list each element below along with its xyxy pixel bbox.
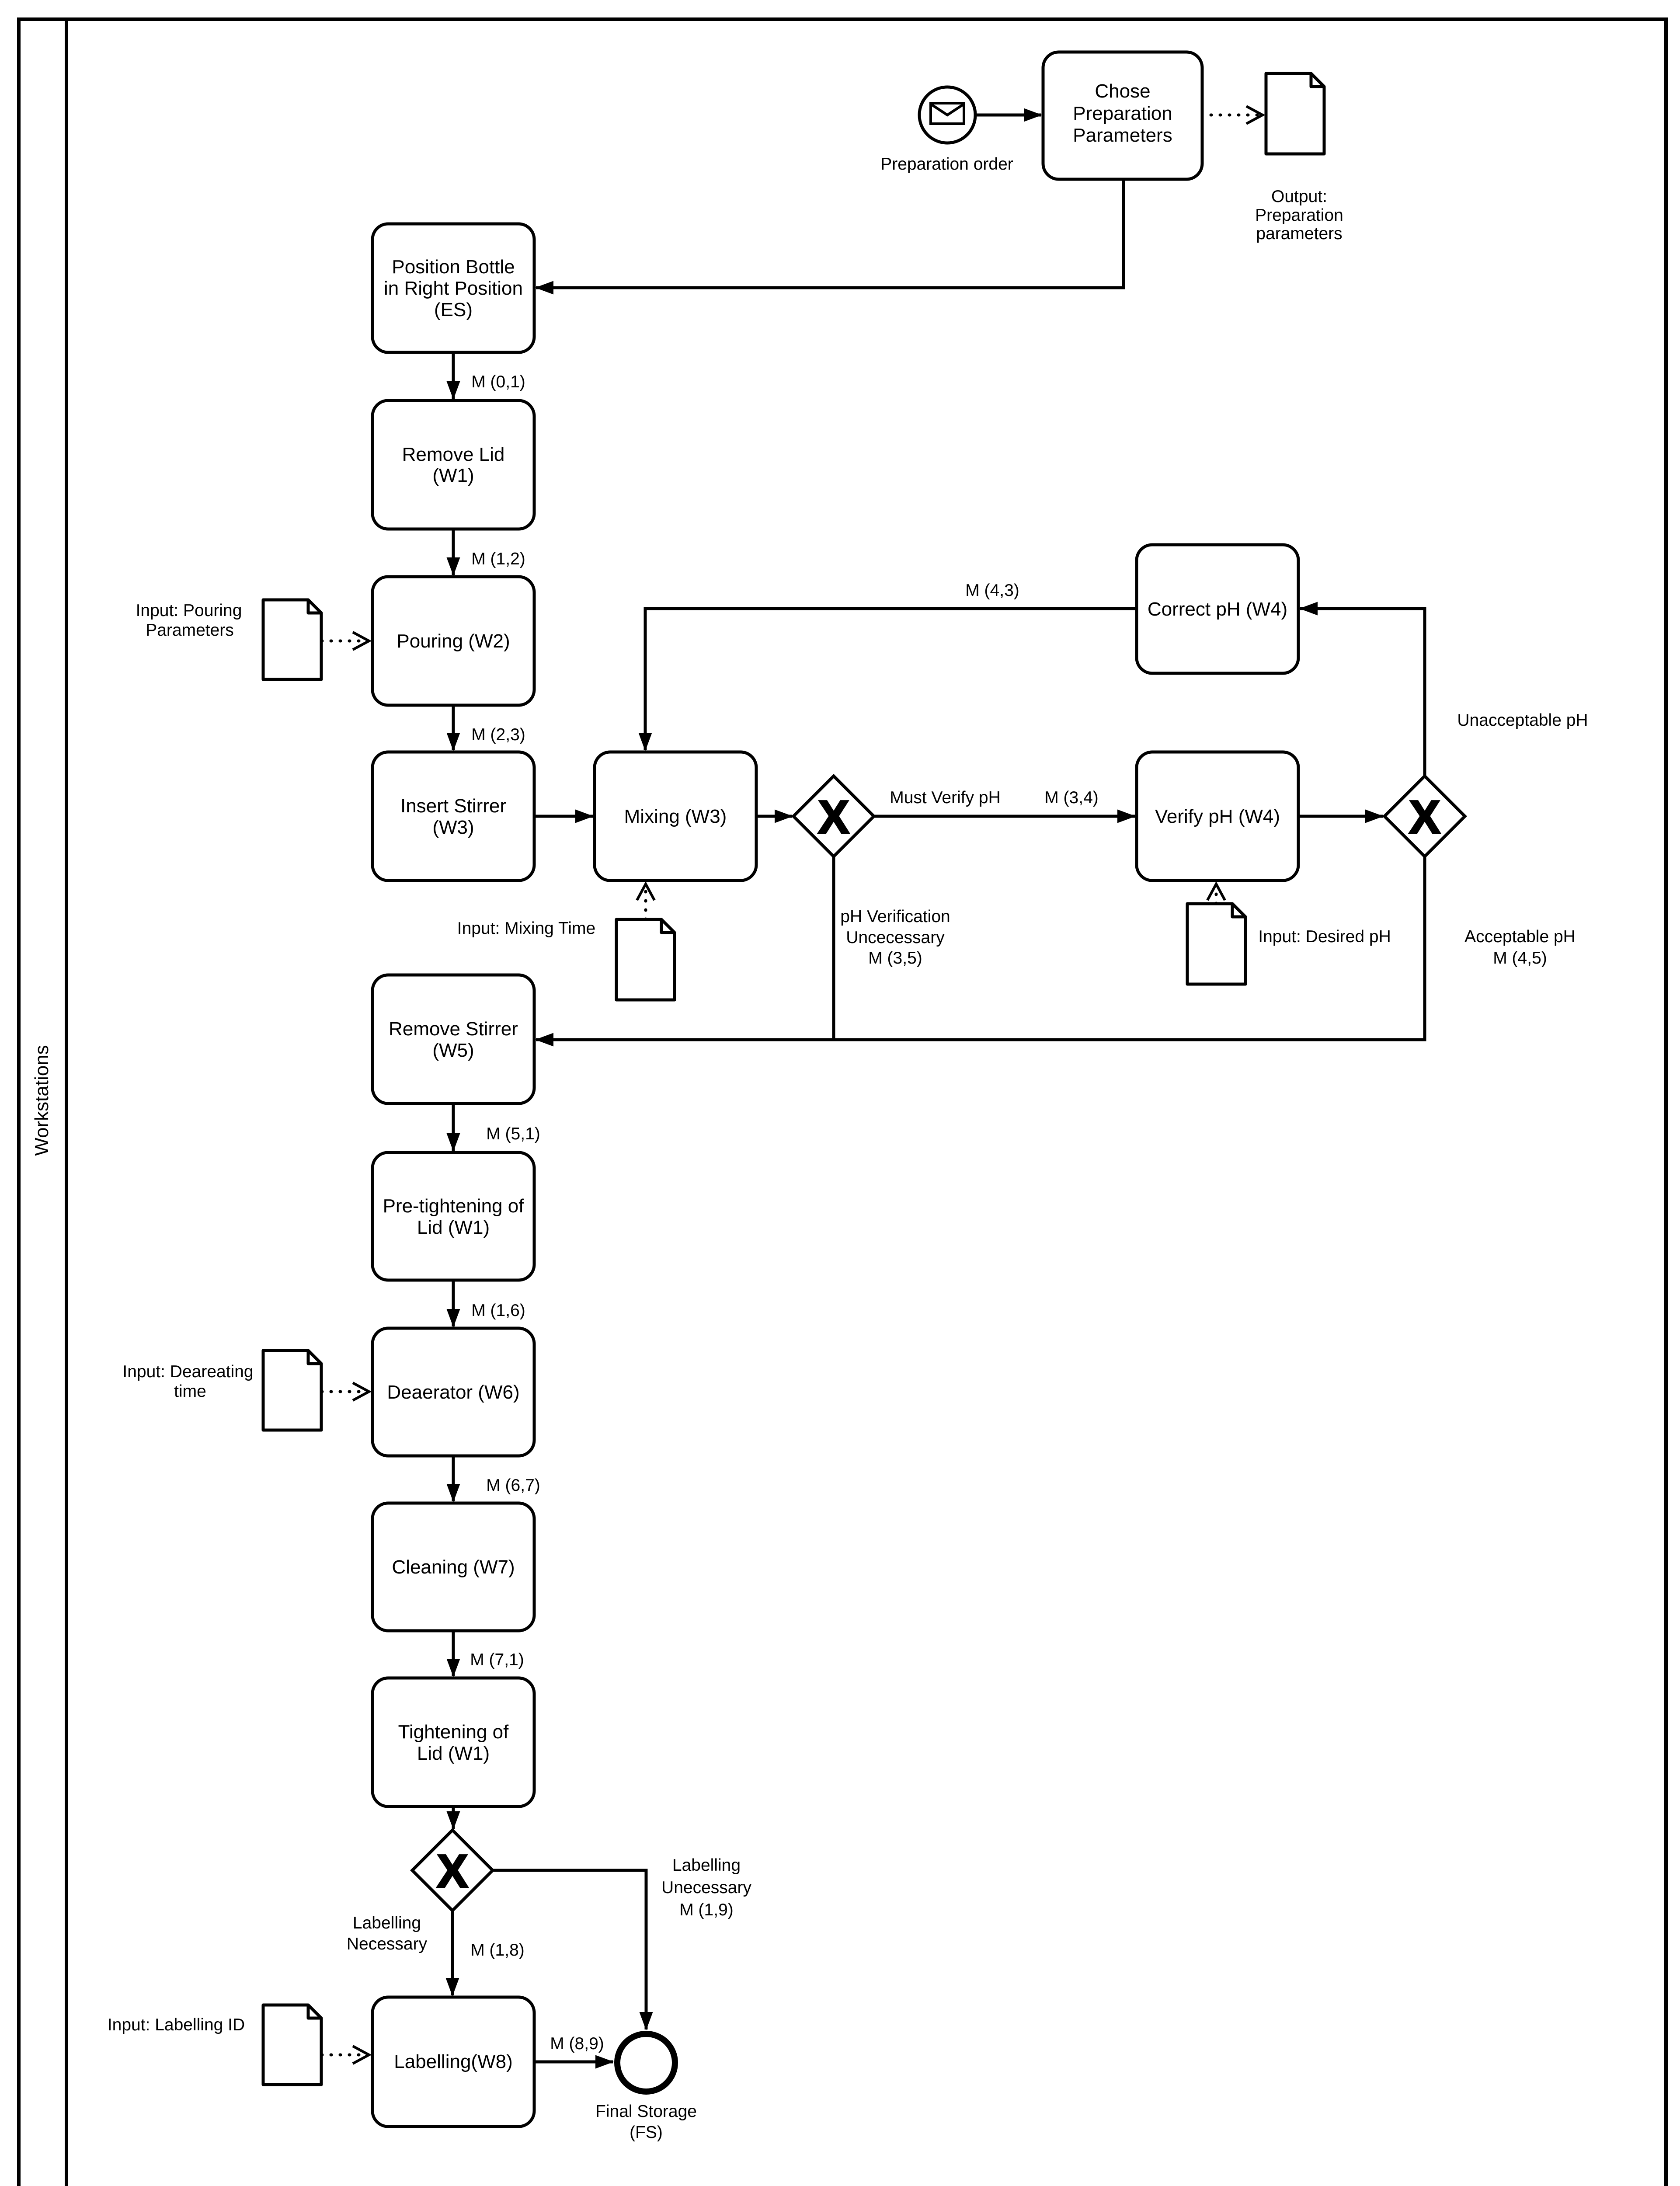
svg-text:Unacceptable pH: Unacceptable pH [1457,711,1588,730]
svg-text:Uncecessary: Uncecessary [846,928,945,947]
svg-text:Necessary: Necessary [347,1935,428,1953]
svg-text:Input: Pouring: Input: Pouring [136,601,242,620]
svg-text:M (1,8): M (1,8) [470,1941,525,1960]
svg-text:M (8,9): M (8,9) [550,2034,604,2053]
svg-text:parameters: parameters [1256,224,1342,243]
svg-text:M (6,7): M (6,7) [486,1476,540,1495]
svg-text:Chose: Chose [1095,80,1150,102]
svg-text:Parameters: Parameters [1073,125,1172,146]
svg-text:Preparation: Preparation [1073,103,1172,124]
svg-text:X: X [818,791,849,843]
svg-text:Preparation: Preparation [1255,206,1343,225]
svg-text:time: time [174,1382,206,1401]
svg-text:in Right Position: in Right Position [384,278,523,299]
svg-text:Position Bottle: Position Bottle [392,256,515,278]
svg-text:Input: Deareating: Input: Deareating [122,1362,253,1381]
svg-text:Acceptable pH: Acceptable pH [1464,927,1576,946]
svg-text:Input: Desired pH: Input: Desired pH [1258,927,1391,946]
svg-text:Pre-tightening of: Pre-tightening of [383,1195,525,1217]
svg-text:Unecessary: Unecessary [661,1878,751,1897]
svg-text:M (4,3): M (4,3) [965,581,1019,600]
svg-text:M (1,6): M (1,6) [471,1301,525,1320]
svg-text:Preparation order: Preparation order [880,155,1013,174]
svg-text:X: X [437,1845,468,1897]
svg-text:Tightening of: Tightening of [398,1721,509,1743]
svg-text:Deaerator (W6): Deaerator (W6) [387,1382,519,1403]
svg-text:Workstations: Workstations [31,1045,52,1156]
svg-text:M (1,9): M (1,9) [679,1901,734,1919]
svg-text:(W5): (W5) [432,1040,474,1061]
svg-text:pH Verification: pH Verification [840,907,950,926]
svg-text:(W1): (W1) [432,465,474,486]
svg-text:Insert Stirrer: Insert Stirrer [400,795,506,817]
svg-text:Input: Labelling ID: Input: Labelling ID [108,2015,245,2034]
svg-text:Must Verify pH: Must Verify pH [890,788,1001,807]
svg-text:Parameters: Parameters [146,621,234,640]
svg-text:Input: Mixing Time: Input: Mixing Time [457,919,595,938]
svg-text:Remove Stirrer: Remove Stirrer [389,1018,518,1040]
svg-text:Labelling: Labelling [672,1856,741,1875]
svg-text:M (7,1): M (7,1) [470,1650,524,1669]
svg-text:(ES): (ES) [434,299,473,320]
svg-text:Labelling(W8): Labelling(W8) [394,2051,512,2072]
svg-text:M (5,1): M (5,1) [486,1124,540,1143]
svg-text:Cleaning (W7): Cleaning (W7) [392,1556,515,1578]
svg-text:Lid (W1): Lid (W1) [417,1743,490,1764]
svg-text:Mixing (W3): Mixing (W3) [624,806,727,827]
svg-text:X: X [1409,791,1440,843]
svg-text:M (2,3): M (2,3) [471,725,525,744]
svg-text:M (3,5): M (3,5) [868,949,922,968]
svg-text:Pouring (W2): Pouring (W2) [397,630,510,652]
svg-text:Labelling: Labelling [353,1914,421,1932]
svg-text:M (1,2): M (1,2) [471,550,525,568]
svg-text:Final Storage: Final Storage [595,2102,697,2121]
svg-text:Output:: Output: [1271,187,1327,206]
svg-text:M (0,1): M (0,1) [471,372,525,391]
svg-text:Lid (W1): Lid (W1) [417,1217,490,1238]
svg-text:Correct pH (W4): Correct pH (W4) [1148,599,1287,620]
svg-text:Verify pH (W4): Verify pH (W4) [1155,806,1280,827]
svg-text:(W3): (W3) [432,817,474,838]
svg-text:M (4,5): M (4,5) [1493,949,1547,968]
svg-text:Remove Lid: Remove Lid [402,444,505,465]
svg-text:M (3,4): M (3,4) [1044,788,1099,807]
svg-text:(FS): (FS) [630,2123,663,2142]
